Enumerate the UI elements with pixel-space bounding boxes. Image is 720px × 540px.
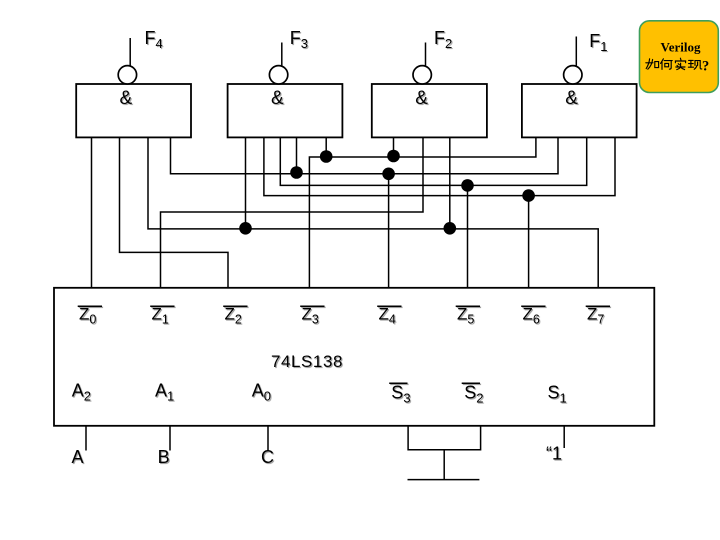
pin label Z4	[377, 305, 401, 327]
svg-text:Verilog: Verilog	[661, 40, 701, 55]
output bubble U1	[118, 66, 136, 84]
nand-gate U3 body	[372, 84, 487, 137]
wire net Z7 trunk (U1 pin3 to decoder)	[148, 137, 598, 288]
junction dot Z3/U2p5	[320, 150, 333, 163]
wire net Z5 branch to decoder	[467, 185, 469, 288]
junction dot Z3/U3p1	[387, 150, 400, 163]
pin label Z7	[586, 305, 610, 327]
IC 74LS138 body	[54, 288, 654, 426]
ground tie S3/S2 bracket	[408, 426, 481, 450]
wire net Z3 trunk (decoder to U4 pin1)	[309, 137, 536, 288]
nand-gate U4 body	[522, 84, 637, 137]
junction dot Z4/decoder	[382, 168, 395, 181]
svg-text:?: ?	[702, 58, 709, 74]
wire net Z3 branch U2 pin5	[325, 137, 327, 157]
note sticky Verilog	[640, 21, 719, 93]
input stub C	[267, 426, 269, 451]
junction dot Z6/decoder	[522, 189, 535, 202]
output wire F2	[425, 43, 427, 66]
svg-text:&: &	[120, 88, 133, 109]
junction dot Z5/decoder	[461, 179, 474, 192]
input stub A	[85, 426, 87, 451]
junction dot Z4/U2p4	[290, 166, 303, 179]
wire net Z4 branch to decoder	[388, 174, 390, 288]
svg-text:B: B	[158, 447, 170, 467]
ground bar	[408, 479, 480, 481]
pin label Z2	[223, 305, 247, 327]
wire net Z4 branch U2 pin4	[296, 137, 298, 174]
pin label Z0	[78, 305, 102, 327]
svg-text:&: &	[271, 88, 284, 109]
ground stem	[443, 450, 445, 480]
pin label Z5	[456, 305, 480, 327]
note text hanzi xian	[688, 60, 701, 69]
input stub B	[169, 426, 171, 451]
wire net Z3 branch U3 pin1	[393, 137, 395, 157]
pin label Z1	[150, 305, 174, 327]
wire net Z4 trunk (U1 pin4 to U4 pin2)	[171, 137, 559, 174]
output wire F4	[129, 38, 131, 66]
pin label S3 (active low)	[389, 382, 410, 405]
nand-gate U2 body	[228, 84, 343, 137]
wire net Z5 trunk (U2 pin3 to U4 pin3)	[280, 137, 586, 185]
note text hanzi shi	[675, 58, 685, 69]
output bubble U4	[564, 66, 582, 84]
wire net Z7 branch U2 pin1	[245, 137, 247, 229]
pin label Z3	[300, 305, 324, 327]
svg-text:74LS138: 74LS138	[271, 352, 343, 371]
wire net Z6 branch to decoder	[528, 196, 530, 288]
output bubble U2	[269, 66, 287, 84]
output bubble U3	[413, 66, 431, 84]
junction dot Z7/U2p1	[239, 222, 252, 235]
wire net Z1 (decoder to U3 pin2)	[161, 137, 424, 288]
wire net Z2 (U1 pin2 to decoder)	[120, 137, 229, 288]
wire net Z6 trunk (U2 pin2 to U4 pin4)	[264, 137, 615, 196]
svg-text:&: &	[415, 88, 428, 109]
svg-text:&: &	[565, 88, 578, 109]
svg-text:C: C	[261, 447, 274, 467]
pin label Z6	[521, 305, 545, 327]
junction dot Z7/U3p3	[444, 222, 457, 235]
output wire F1	[575, 37, 577, 66]
wire net Z7 branch U3 pin3	[449, 137, 451, 229]
nand-gate U1 body	[76, 84, 191, 137]
note text hanzi ru (how)	[646, 59, 659, 69]
pin label S2 (active low)	[462, 382, 484, 405]
output wire F3	[281, 43, 283, 66]
input stub S1	[563, 426, 565, 448]
wire net Z0 (U1 pin1 to decoder)	[91, 137, 93, 288]
svg-text:“1: “1	[546, 444, 562, 464]
note text hanzi he	[661, 59, 673, 70]
svg-text:A: A	[72, 447, 84, 467]
